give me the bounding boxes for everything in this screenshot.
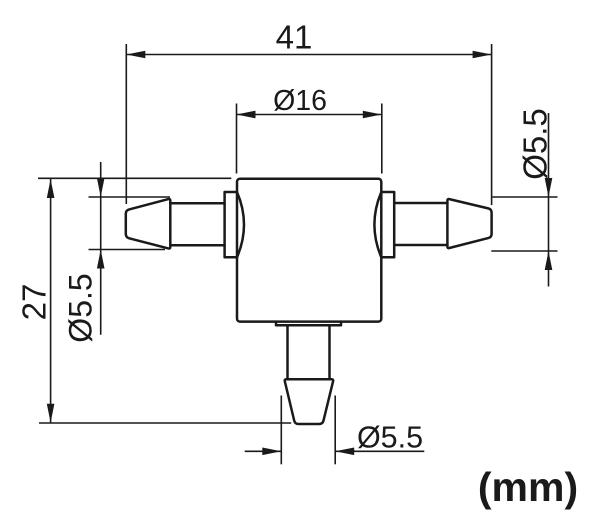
arrowhead Ø16 right — [363, 111, 382, 119]
dimension 41: right extension line — [491, 44, 493, 205]
dimension Ø5.5 right: top extension line — [492, 196, 557, 198]
dimension 27: bottom extension line — [39, 422, 291, 424]
dimension Ø16: left extension line — [236, 104, 238, 174]
dimension Ø5.5 left: bottom extension line — [89, 249, 166, 251]
svg-text:Ø16: Ø16 — [273, 85, 327, 117]
left barb cone — [126, 199, 171, 249]
dimension 27: dimension line — [50, 179, 52, 423]
dimension Ø5.5 right: bottom extension line — [491, 250, 557, 252]
svg-text:(mm): (mm) — [478, 464, 578, 510]
dimension Ø5.5 bottom: left extension line — [280, 396, 282, 465]
svg-text:Ø5.5: Ø5.5 — [517, 108, 554, 180]
dimension Ø5.5 bottom: right extension line — [334, 396, 336, 465]
arrowhead 41 right — [473, 51, 492, 59]
svg-text:27: 27 — [16, 284, 53, 321]
arrowhead Ø5.5 left top (pointing down) — [97, 178, 105, 197]
arrowhead Ø16 left — [237, 111, 256, 119]
arrowhead Ø5.5 right top (pointing down) — [545, 178, 553, 197]
dimension Ø16: right extension line — [381, 104, 383, 174]
dimension Ø16: dimension line — [237, 114, 382, 116]
bottom stem (tube) — [288, 325, 330, 379]
dimension Ø5.5 bottom: left dimension line segment — [245, 450, 282, 452]
arrowhead Ø5.5 bottom left (pointing right) — [262, 448, 281, 456]
dimension Ø5.5 right: dimension line — [548, 113, 550, 287]
bottom barb cone — [285, 379, 334, 424]
dimension 27: top extension line — [38, 177, 231, 179]
dimension Ø5.5 left: top extension line — [89, 196, 171, 198]
arrowhead Ø5.5 right bottom (pointing up) — [545, 251, 553, 270]
dimension Ø5.5 left: dimension line — [100, 162, 102, 335]
left collar — [225, 192, 244, 257]
right collar — [374, 192, 394, 257]
left stem (tube) — [170, 203, 224, 245]
right barb cone — [447, 199, 491, 248]
dimension Ø5.5 bottom: right dimension line segment — [335, 450, 424, 452]
arrowhead 27 top (pointing up) — [47, 179, 55, 198]
arrowhead 27 bottom (pointing down) — [47, 404, 55, 423]
arrowhead Ø5.5 left bottom (pointing up) — [97, 250, 105, 269]
right stem (tube) — [394, 203, 447, 245]
arrowhead Ø5.5 bottom right (pointing left) — [335, 448, 354, 456]
svg-text:41: 41 — [276, 18, 313, 55]
svg-text:Ø5.5: Ø5.5 — [63, 273, 99, 342]
svg-text:Ø5.5: Ø5.5 — [357, 420, 423, 454]
dimension 41: dimension line — [126, 54, 491, 56]
dimension 41: left extension line — [125, 44, 127, 204]
body (central block) — [237, 179, 381, 322]
bottom collar — [276, 322, 341, 326]
arrowhead 41 left — [126, 51, 145, 59]
